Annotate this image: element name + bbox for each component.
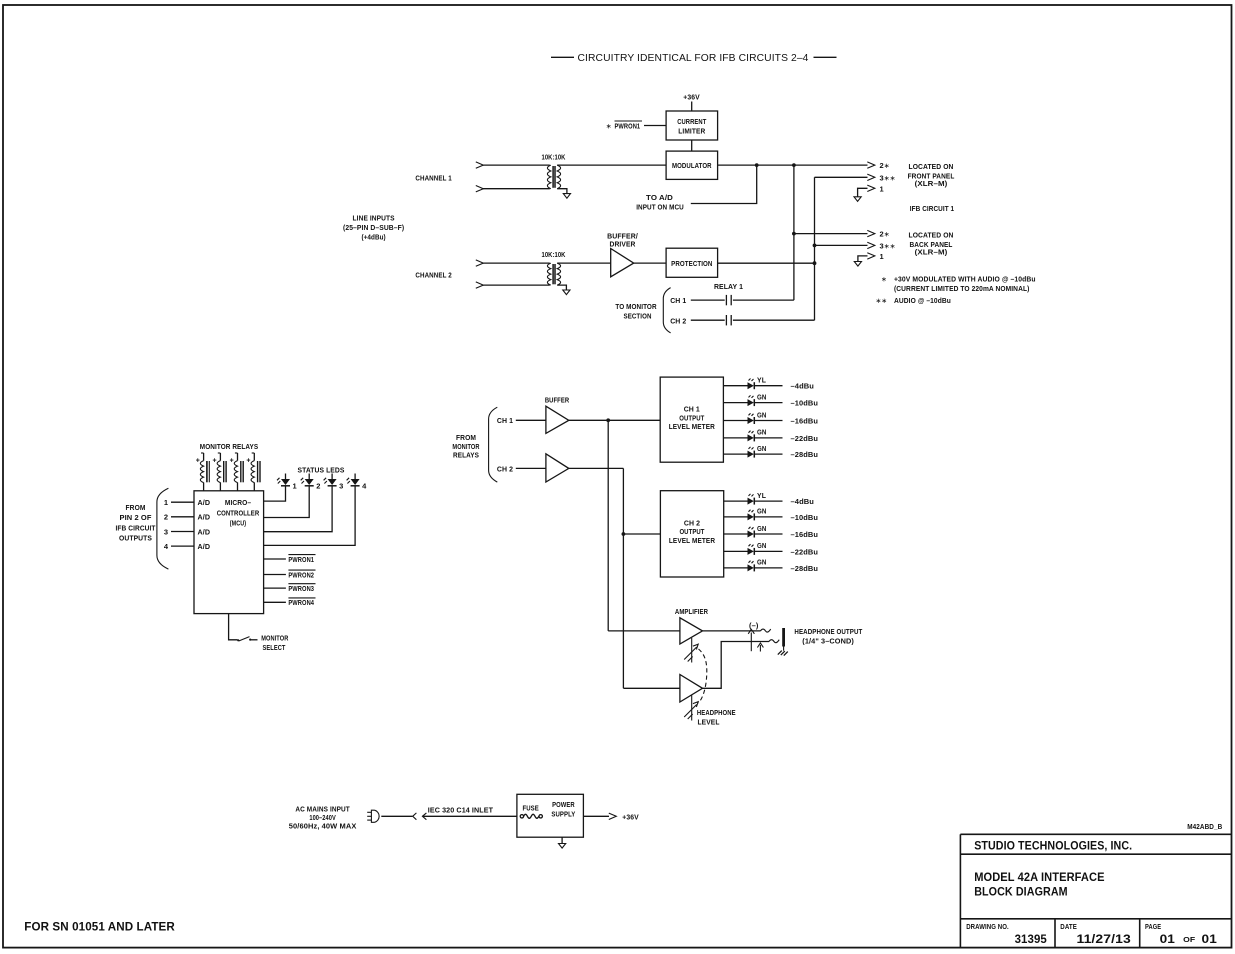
wire PWRON1 output: [264, 558, 286, 560]
svg-text:STATUS LEDS: STATUS LEDS: [298, 465, 345, 474]
svg-text:A/D: A/D: [198, 527, 211, 536]
wire A/D input 4: [171, 545, 194, 547]
meter1 wire -28dBu: [755, 453, 783, 455]
pin label 2* back: [880, 230, 890, 239]
svg-text:IFB CIRCUIT: IFB CIRCUIT: [116, 523, 156, 532]
wire T2 secondary low to ground: [557, 285, 566, 290]
wire A/D input 2: [171, 516, 194, 518]
svg-text:CH 2: CH 2: [684, 518, 700, 527]
buffer amp U6A: [546, 406, 569, 433]
wire MCU to D2: [264, 486, 310, 518]
meter2 LED GN2 wire: [724, 516, 748, 518]
svg-text:SUPPLY: SUPPLY: [551, 809, 575, 818]
meter1 wire -22dBu: [755, 437, 783, 439]
field label DRAWING NO.: [966, 924, 1009, 931]
label IFB CIRCUIT 1: [910, 204, 954, 213]
power rail +36V label (top): [683, 93, 700, 102]
svg-text:MONITOR: MONITOR: [261, 633, 289, 642]
svg-text:LEVEL METER: LEVEL METER: [669, 422, 716, 431]
svg-text:11/27/13: 11/27/13: [1077, 932, 1132, 946]
wire ch1 to buffer: [516, 419, 546, 421]
svg-text:–28dBu: –28dBu: [791, 564, 819, 573]
meter2 LED GN3: [748, 526, 767, 538]
meter1 LED YL wire: [723, 385, 747, 387]
net label +36V: [622, 812, 639, 821]
label CH 2 (relay): [670, 316, 686, 325]
svg-text:–4dBu: –4dBu: [791, 497, 815, 506]
ganged pot dashed link: [699, 649, 707, 703]
value label -4dBu (m1): [791, 382, 815, 391]
pin number 2: [164, 513, 168, 522]
svg-text:LOCATED ON: LOCATED ON: [909, 162, 954, 171]
svg-text:A/D: A/D: [198, 542, 211, 551]
value label -22dBu (m2): [791, 547, 819, 556]
label: circuitry identical note: [551, 52, 837, 64]
field label PAGE: [1145, 924, 1161, 931]
label AC MAINS INPUT: [289, 805, 357, 831]
transformer T1: [547, 165, 560, 189]
svg-text:MONITOR: MONITOR: [452, 442, 480, 451]
label HEADPHONE OUTPUT: [794, 627, 862, 645]
svg-text:HEADPHONE: HEADPHONE: [697, 708, 736, 717]
svg-text:4: 4: [362, 481, 367, 490]
switch SW1 monitor select: [237, 637, 257, 642]
value label 10K:10K (T1): [542, 153, 566, 162]
jack tip contact: [748, 629, 754, 651]
page numbers: [1160, 932, 1218, 946]
svg-text:MODEL 42A INTERFACE: MODEL 42A INTERFACE: [974, 870, 1104, 884]
power supply PS1: [517, 794, 584, 837]
svg-text:(–): (–): [749, 621, 759, 630]
svg-text:(CURRENT LIMITED TO 220mA: (CURRENT LIMITED TO 220mA NOMINAL): [894, 284, 1030, 293]
svg-text:DRAWING NO.: DRAWING NO.: [966, 924, 1009, 931]
svg-text:SELECT: SELECT: [263, 643, 286, 652]
protection block U4: [666, 248, 718, 277]
transformer T2: [547, 263, 560, 285]
connector pin 2 back panel: [867, 230, 875, 236]
label AMPLIFIER: [675, 607, 709, 616]
wire PS ground stub: [561, 837, 563, 843]
svg-text:+: +: [230, 458, 234, 465]
label IEC 320 C14 INLET: [428, 805, 494, 814]
pin label 3** front: [880, 173, 896, 182]
wire PWRON4 output: [264, 601, 286, 603]
svg-text:TO MONITOR: TO MONITOR: [615, 302, 657, 311]
meter1 wire -16dBu: [755, 420, 783, 422]
svg-text:BUFFER: BUFFER: [545, 395, 570, 404]
svg-text:POWER: POWER: [552, 800, 575, 809]
svg-text:–28dBu: –28dBu: [791, 450, 819, 459]
doc code M42ABD_B: [1187, 824, 1222, 831]
svg-text:GN: GN: [757, 543, 767, 550]
wire +36V to current limiter: [691, 102, 693, 112]
ground T1: [563, 194, 570, 199]
label TO A/D INPUT ON MCU: [636, 193, 684, 211]
note FOR SN 01051 AND LATER: [24, 920, 175, 934]
junction buffer1/headphone: [606, 418, 610, 422]
junction back panel 3: [813, 244, 817, 248]
svg-text:PWRON1: PWRON1: [288, 555, 314, 564]
wire channel 1 + input: [483, 164, 550, 166]
meter1 wire -10dBu: [755, 402, 783, 404]
svg-text:–22dBu: –22dBu: [791, 434, 819, 443]
wire MCU to D3: [264, 486, 333, 532]
svg-text:01: 01: [1202, 932, 1218, 946]
relay coil K1: [196, 453, 210, 491]
wire monitor select: [229, 614, 238, 640]
svg-text:10K:10K: 10K:10K: [542, 250, 566, 259]
value label -10dBu (m1): [791, 399, 819, 408]
svg-text:PAGE: PAGE: [1145, 924, 1161, 931]
relay coil K2: [213, 453, 227, 491]
value label -10dBu (m2): [791, 513, 819, 522]
svg-text:–16dBu: –16dBu: [791, 530, 819, 539]
AC plug P1: [367, 810, 379, 822]
fuse F1: [520, 814, 542, 818]
svg-text:CH 2: CH 2: [497, 464, 513, 473]
svg-text:(25–PIN D–SUB–F): (25–PIN D–SUB–F): [343, 223, 405, 232]
drawing number 31395: [1015, 932, 1048, 946]
svg-text:STUDIO TECHNOLOGIES, INC.: STUDIO TECHNOLOGIES, INC.: [974, 838, 1132, 852]
label located on back panel: [909, 231, 954, 257]
wire buffer1 out to meter1: [569, 419, 660, 421]
svg-text:(XLR–M): (XLR–M): [915, 179, 948, 188]
connector pin +36V: [609, 813, 617, 819]
svg-text:YL: YL: [757, 493, 767, 500]
meter1 LED GN2 wire: [723, 402, 747, 404]
svg-text:CHANNEL 2: CHANNEL 2: [415, 271, 451, 280]
meter1 wire -4dBu: [755, 385, 783, 387]
svg-text:(MCU): (MCU): [230, 518, 247, 527]
meter2 wire -4dBu: [755, 500, 783, 502]
svg-text:+: +: [246, 458, 250, 465]
pin number 3: [164, 527, 168, 536]
meter1 LED GN3: [748, 412, 767, 424]
svg-text:31395: 31395: [1015, 932, 1048, 946]
LED D2: [301, 474, 321, 491]
svg-text:RELAY 1: RELAY 1: [714, 282, 743, 291]
svg-text:–4dBu: –4dBu: [791, 382, 815, 391]
svg-text:HEADPHONE OUTPUT: HEADPHONE OUTPUT: [794, 627, 862, 636]
connector pin channel 1 +: [476, 162, 484, 168]
svg-text:OUTPUT: OUTPUT: [679, 527, 704, 536]
meter2 LED GN5: [748, 560, 767, 572]
value label -16dBu (m1): [791, 417, 819, 426]
svg-text:OUTPUT: OUTPUT: [679, 413, 704, 422]
meter2 LED GN3 wire: [724, 533, 748, 535]
junction modulator/A-D: [755, 163, 759, 167]
svg-text:4: 4: [164, 542, 169, 551]
connector pin channel 2 +: [476, 260, 484, 266]
wire relay 1 ch1 right: [733, 299, 794, 301]
relay coil K4: [246, 453, 260, 491]
meter2 LED GN2: [748, 509, 767, 521]
label BUFFER/DRIVER: [607, 231, 639, 248]
footnote audio level: [876, 296, 952, 305]
svg-text:+36V: +36V: [622, 812, 639, 821]
ch2 output level meter U8: [660, 491, 723, 577]
svg-text:LINE INPUTS: LINE INPUTS: [353, 213, 395, 222]
relay contact K1B: [726, 315, 731, 325]
junction ch2 riser/meter2: [622, 532, 626, 536]
wire A/D input 1: [171, 501, 194, 503]
wire meter2 input: [623, 533, 660, 535]
connector pin channel 2 -: [476, 282, 484, 288]
label CH 1 (monitor in): [497, 416, 513, 425]
svg-text:2∗: 2∗: [880, 161, 890, 170]
pin label 2* front: [880, 161, 890, 170]
meter2 LED YL: [748, 493, 767, 505]
wire +36V output: [583, 815, 609, 817]
jack ring flex: [769, 640, 779, 643]
svg-text:2∗: 2∗: [880, 230, 890, 239]
wire to A/D input on MCU: [691, 165, 757, 203]
wire ch1 riser: [607, 420, 609, 631]
svg-text:∗: ∗: [881, 277, 887, 284]
wire T1 secondary to modulator: [557, 164, 666, 166]
buffer amp U6B: [546, 454, 569, 482]
svg-text:3∗∗: 3∗∗: [880, 242, 896, 251]
svg-text:+: +: [213, 458, 217, 465]
svg-text:AMPLIFIER: AMPLIFIER: [675, 607, 709, 616]
svg-text:1: 1: [880, 252, 884, 261]
svg-text:1: 1: [293, 481, 297, 490]
svg-text:3: 3: [339, 481, 343, 490]
svg-text:+: +: [196, 458, 200, 465]
wire A/D input 3: [171, 531, 194, 533]
pin label 3** back: [880, 242, 896, 251]
svg-text:01: 01: [1160, 932, 1176, 946]
wire channel 1 - input: [483, 188, 550, 190]
wire amp1 output: [703, 630, 761, 632]
meter1 LED GN2: [748, 394, 767, 406]
label TO MONITOR SECTION: [615, 302, 657, 320]
label FROM MONITOR RELAYS: [452, 433, 480, 460]
wire channel 2 + input: [483, 262, 550, 264]
svg-text:GN: GN: [757, 446, 767, 453]
footnote +30V modulated: [881, 275, 1036, 293]
connector pin channel 1 -: [476, 186, 484, 192]
wire riser pin3 net: [814, 177, 816, 320]
ch1 output level meter U7: [660, 377, 723, 462]
label RELAY 1: [714, 282, 743, 291]
meter1 LED GN5: [748, 446, 767, 458]
wire amp2 output riser: [703, 642, 770, 689]
value label -16dBu (m2): [791, 530, 819, 539]
connector pin 2 front panel: [867, 162, 875, 168]
wire PWRON2 output: [264, 574, 286, 576]
value label 10K:10K (T2): [542, 250, 566, 259]
svg-text:PWRON2: PWRON2: [288, 570, 314, 579]
headphone amp U9A: [680, 618, 703, 644]
connector female arrow: [422, 813, 517, 820]
meter1 LED GN4: [748, 430, 767, 442]
connector pin 1 back panel: [867, 253, 875, 259]
svg-text:FROM: FROM: [126, 503, 146, 512]
svg-text:LEVEL METER: LEVEL METER: [669, 536, 716, 545]
pin label 1 front: [880, 184, 884, 193]
pin number 1: [164, 498, 168, 507]
connector pin 3 back panel: [867, 242, 875, 248]
svg-text:–10dBu: –10dBu: [791, 399, 819, 408]
meter2 LED GN5 wire: [724, 567, 748, 569]
meter2 wire -22dBu: [755, 550, 783, 552]
connector pin 1 front panel: [867, 185, 875, 191]
wire ch2 to amp2: [623, 687, 680, 689]
wire protection output: [718, 262, 815, 264]
wire plug to inlet: [381, 815, 412, 817]
meter1 LED GN4 wire: [723, 437, 747, 439]
meter2 LED YL wire: [724, 500, 748, 502]
svg-text:CONTROLLER: CONTROLLER: [217, 509, 260, 518]
meter2 wire -28dBu: [755, 567, 783, 569]
label HEADPHONE LEVEL: [697, 708, 736, 726]
junction modulator/back panel: [792, 163, 796, 167]
wire back panel 1 elbow: [858, 256, 868, 262]
buffer/driver amp U3: [611, 249, 634, 277]
wire front panel 3: [815, 176, 868, 178]
meter2 LED GN4 wire: [724, 550, 748, 552]
label FROM PIN 2 OF IFB CIRCUIT OUTPUTS: [116, 503, 156, 543]
svg-text:OF: OF: [1183, 937, 1196, 944]
meter1 LED YL: [748, 378, 767, 390]
net label PWRON1: [288, 555, 315, 564]
svg-text:2: 2: [164, 513, 168, 522]
label CHANNEL 1: [415, 173, 451, 182]
svg-text:50/60Hz, 40W MAX: 50/60Hz, 40W MAX: [289, 822, 357, 831]
svg-text:PWRON4: PWRON4: [288, 598, 314, 607]
wire MCU to D4: [264, 486, 356, 545]
svg-text:GN: GN: [757, 430, 767, 437]
label CH 1 (relay): [670, 296, 686, 305]
connector male half: [413, 813, 417, 820]
wire relay 1 ch1 left: [691, 299, 725, 301]
svg-text:(XLR–M): (XLR–M): [915, 247, 948, 256]
wire T2 secondary to buffer: [557, 262, 611, 264]
svg-text:LEVEL: LEVEL: [698, 718, 720, 727]
svg-text:PWRON3: PWRON3: [288, 584, 314, 593]
potentiometer amp2 gain (headphone level): [684, 695, 698, 720]
svg-text:M42ABD_B: M42ABD_B: [1187, 824, 1222, 831]
svg-text:1: 1: [164, 498, 168, 507]
LED D4: [347, 474, 368, 491]
ground back panel pin1: [854, 262, 861, 267]
wire current limiter to modulator: [691, 140, 693, 151]
wire ch2 to buffer: [516, 467, 546, 469]
chassis ground jack: [778, 651, 788, 656]
ground power supply: [559, 844, 566, 849]
meter2 LED GN4: [748, 543, 767, 555]
svg-text:DATE: DATE: [1060, 924, 1077, 931]
wire relay 1 ch2 right: [733, 319, 815, 321]
wire front panel 1 elbow: [858, 188, 868, 197]
bracket from IFB outputs: [157, 488, 169, 569]
bracket from monitor relays: [489, 407, 498, 482]
svg-text:IEC 320 C14 INLET: IEC 320 C14 INLET: [428, 805, 494, 814]
microcontroller U5 (MCU): [194, 491, 264, 614]
wire relay 1 ch2 left: [691, 319, 725, 321]
svg-text:LIMITER: LIMITER: [678, 127, 705, 136]
wire PWRON1 to current limiter: [644, 125, 666, 127]
label (-): [749, 621, 759, 630]
svg-text:CH 1: CH 1: [684, 405, 700, 414]
svg-text:CURRENT: CURRENT: [677, 117, 706, 126]
svg-text:GN: GN: [757, 394, 767, 401]
svg-text:(+4dBu): (+4dBu): [361, 232, 386, 241]
svg-text:PIN 2 OF: PIN 2 OF: [120, 513, 152, 522]
svg-text:OUTPUTS: OUTPUTS: [119, 534, 152, 543]
svg-text:CH 1: CH 1: [497, 416, 513, 425]
svg-text:CH 2: CH 2: [670, 316, 686, 325]
svg-text:IFB CIRCUIT 1: IFB CIRCUIT 1: [910, 204, 954, 213]
net PWRON1 control input: [606, 121, 642, 130]
label MONITOR SELECT: [261, 633, 289, 651]
svg-text:PROTECTION: PROTECTION: [671, 259, 712, 268]
svg-text:A/D: A/D: [198, 498, 211, 507]
ground front panel pin1: [854, 197, 861, 202]
net label PWRON4: [288, 598, 315, 607]
label STATUS LEDS: [298, 465, 345, 474]
ground T2: [563, 290, 570, 295]
wire back panel 3: [815, 244, 868, 246]
svg-text:MONITOR RELAYS: MONITOR RELAYS: [200, 442, 258, 451]
svg-text:∗: ∗: [606, 123, 612, 130]
meter1 LED GN3 wire: [723, 420, 747, 422]
label LINE INPUTS: [343, 213, 405, 241]
wire buffer to protection: [634, 262, 666, 264]
svg-text:–22dBu: –22dBu: [791, 547, 819, 556]
svg-text:TO A/D: TO A/D: [646, 193, 673, 202]
drawing title: [974, 870, 1104, 899]
date 11/27/13: [1077, 932, 1132, 946]
jack ring contact arrow: [757, 643, 763, 652]
net label PWRON2: [288, 570, 315, 579]
svg-text:GN: GN: [757, 526, 767, 533]
meter2 wire -10dBu: [755, 516, 783, 518]
svg-text:1: 1: [880, 184, 884, 193]
value label -4dBu (m2): [791, 497, 815, 506]
svg-text:GN: GN: [757, 412, 767, 419]
svg-text:CH 1: CH 1: [670, 296, 686, 305]
svg-text:3∗∗: 3∗∗: [880, 173, 896, 182]
title block border: [960, 834, 1231, 947]
headphone amp U9B: [680, 675, 703, 703]
label CH 2 (monitor in): [497, 464, 513, 473]
svg-text:LOCATED ON: LOCATED ON: [909, 231, 954, 240]
meter1 LED GN5 wire: [723, 453, 747, 455]
svg-text:∗∗: ∗∗: [876, 298, 888, 305]
svg-text:–10dBu: –10dBu: [791, 513, 819, 522]
svg-text:MICRO–: MICRO–: [225, 498, 251, 507]
wire MCU to D1: [264, 486, 286, 501]
wire ch2 riser: [622, 468, 624, 688]
value label -28dBu (m2): [791, 564, 819, 573]
svg-text:CIRCUITRY IDENTICAL FOR IFB: CIRCUITRY IDENTICAL FOR IFB CIRCUITS 2–4: [578, 52, 809, 64]
svg-text:+36V: +36V: [683, 93, 700, 102]
svg-text:CHANNEL 1: CHANNEL 1: [415, 173, 451, 182]
wire T1 secondary low to ground: [557, 189, 567, 194]
value label -22dBu (m1): [791, 434, 819, 443]
svg-text:YL: YL: [757, 378, 767, 385]
company name: [974, 838, 1132, 852]
svg-text:DRIVER: DRIVER: [610, 240, 636, 249]
current limiter U1: [666, 111, 718, 140]
junction protection/riser: [813, 261, 817, 265]
label MONITOR RELAYS: [200, 442, 258, 451]
svg-text:MODULATOR: MODULATOR: [672, 161, 712, 170]
net label PWRON3: [288, 584, 315, 593]
wire ch1 to amplifier: [608, 630, 680, 632]
